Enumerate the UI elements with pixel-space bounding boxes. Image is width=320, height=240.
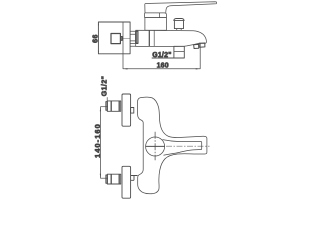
svg-text:160: 160 (157, 62, 169, 69)
svg-text:140-160: 140-160 (93, 123, 102, 158)
svg-text:G1/2": G1/2" (102, 76, 109, 97)
svg-text:66: 66 (93, 34, 100, 43)
